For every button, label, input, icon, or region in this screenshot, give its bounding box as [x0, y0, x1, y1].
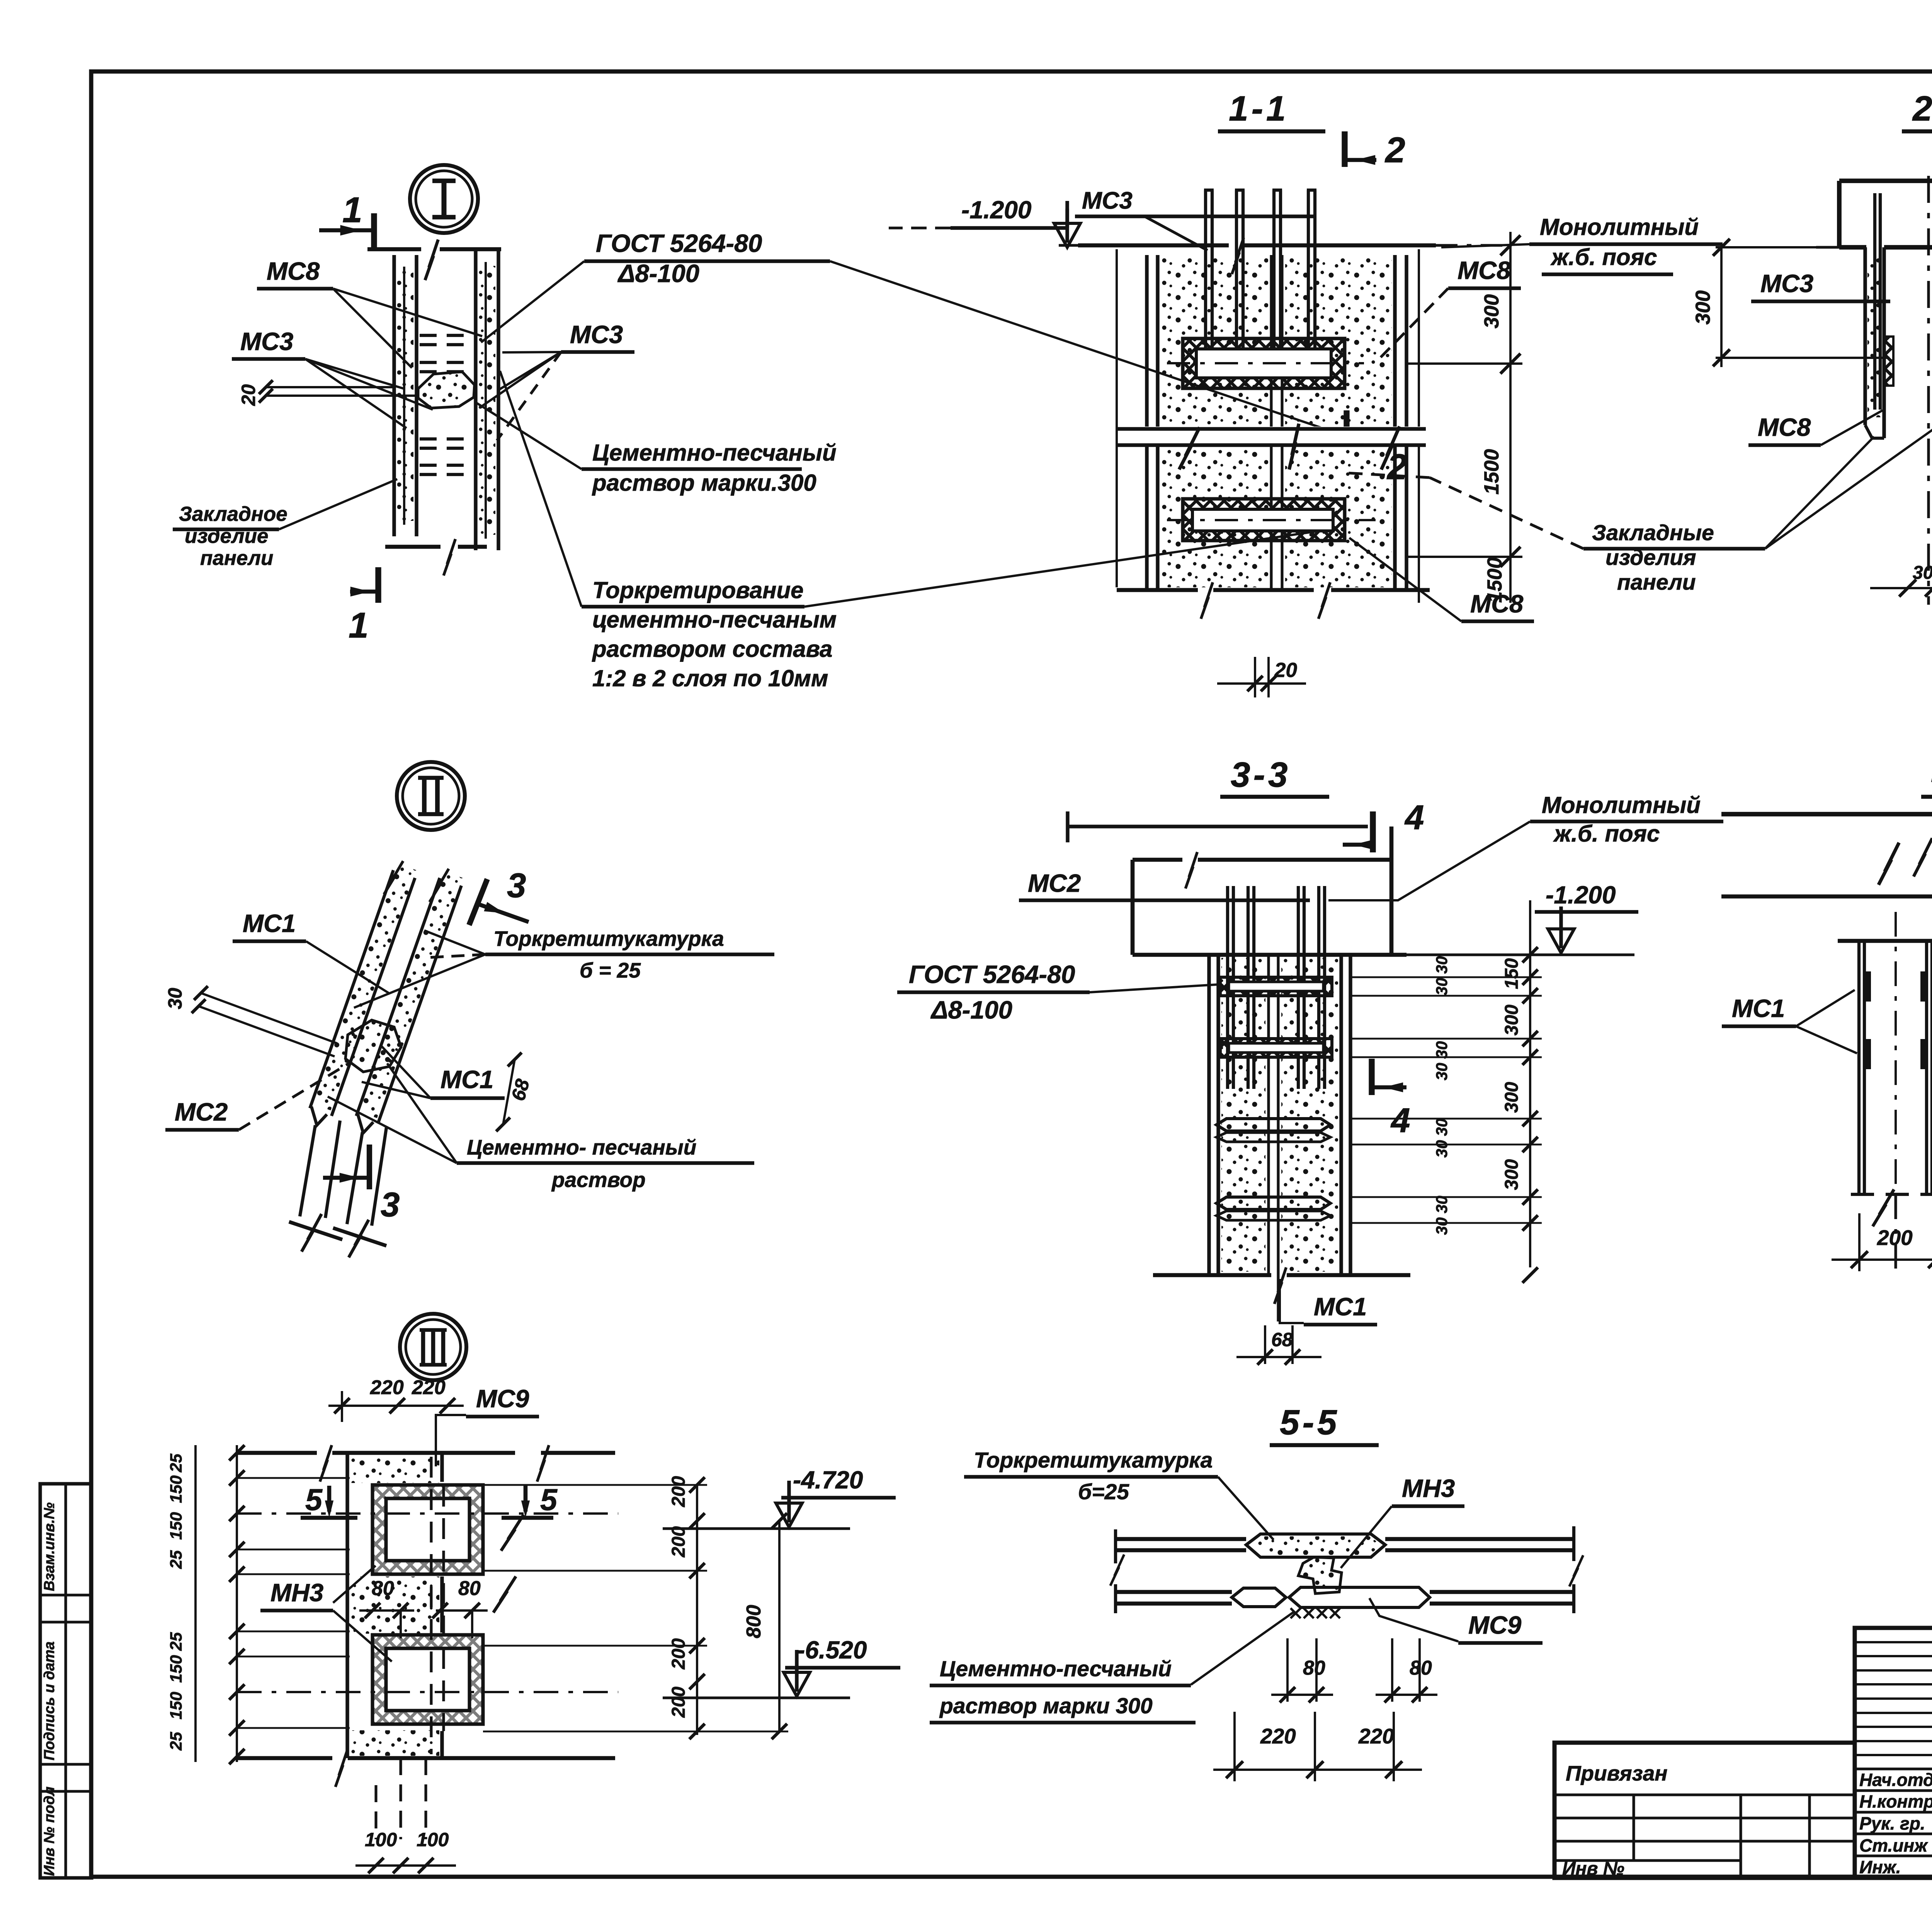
svg-text:МС2: МС2 [175, 1098, 228, 1126]
svg-text:Монолитный: Монолитный [1540, 214, 1699, 240]
svg-text:ж.б. пояс: ж.б. пояс [1550, 244, 1657, 270]
svg-text:раствор марки 300: раствор марки 300 [939, 1694, 1153, 1718]
svg-text:200: 200 [668, 1476, 689, 1507]
svg-text:МС2: МС2 [1028, 869, 1081, 897]
svg-text:МС8: МС8 [1458, 256, 1511, 284]
svg-text:150: 150 [1502, 958, 1522, 989]
svg-text:25: 25 [167, 1453, 185, 1473]
svg-text:3: 3 [507, 866, 526, 905]
svg-text:25: 25 [167, 1550, 185, 1569]
svg-text:30: 30 [1433, 1217, 1451, 1235]
svg-text:Подпись и дата: Подпись и дата [41, 1641, 58, 1760]
svg-text:150: 150 [167, 1655, 185, 1683]
svg-text:-1.200: -1.200 [1546, 881, 1616, 909]
svg-text:раствор: раствор [551, 1168, 646, 1192]
svg-text:МС1: МС1 [1732, 994, 1785, 1022]
svg-text:цементно-песчаным: цементно-песчаным [592, 607, 837, 633]
svg-text:300: 300 [1502, 1159, 1522, 1190]
svg-text:МС3: МС3 [240, 327, 293, 355]
svg-text:30: 30 [1433, 956, 1451, 974]
svg-text:2-2: 2-2 [1912, 89, 1932, 128]
svg-text:3: 3 [381, 1185, 400, 1224]
svg-text:200: 200 [668, 1687, 689, 1718]
svg-text:Инв № подл: Инв № подл [41, 1787, 58, 1876]
svg-text:68: 68 [1271, 1329, 1293, 1350]
svg-text:300: 300 [1692, 291, 1714, 325]
svg-text:ГОСТ 5264-80: ГОСТ 5264-80 [909, 960, 1075, 988]
svg-text:МС8: МС8 [1758, 413, 1811, 441]
svg-text:Ст.инж: Ст.инж [1859, 1835, 1928, 1855]
svg-text:МС9: МС9 [476, 1384, 529, 1413]
svg-text:100: 100 [417, 1829, 449, 1850]
svg-text:МС1: МС1 [243, 909, 296, 937]
svg-text:220: 220 [1260, 1724, 1296, 1748]
svg-text:20: 20 [1274, 659, 1297, 682]
svg-text:4: 4 [1390, 1101, 1410, 1139]
svg-text:200: 200 [668, 1638, 689, 1670]
svg-text:МС1: МС1 [440, 1065, 493, 1094]
svg-text:25: 25 [167, 1731, 185, 1751]
svg-text:220: 220 [1358, 1724, 1394, 1748]
svg-text:раствором состава: раствором состава [592, 636, 832, 662]
svg-text:30: 30 [1433, 1041, 1451, 1059]
svg-text:300: 300 [1502, 1005, 1522, 1036]
svg-text:5: 5 [540, 1482, 558, 1517]
svg-text:Взам.инв.№: Взам.инв.№ [41, 1502, 58, 1591]
svg-text:30: 30 [1913, 563, 1932, 583]
svg-text:220: 220 [370, 1376, 404, 1399]
svg-text:220: 220 [412, 1376, 446, 1399]
svg-text:80: 80 [1410, 1657, 1432, 1679]
svg-text:80: 80 [1303, 1657, 1325, 1679]
svg-text:б = 25: б = 25 [580, 958, 641, 982]
svg-text:Привязан: Привязан [1566, 1761, 1668, 1785]
svg-text:1:2 в 2 слоя по 10мм: 1:2 в 2 слоя по 10мм [592, 665, 828, 691]
svg-text:3-3: 3-3 [1231, 755, 1291, 794]
svg-text:-6.520: -6.520 [797, 1636, 867, 1664]
svg-text:Инв №: Инв № [1562, 1859, 1624, 1879]
svg-text:МС3: МС3 [570, 320, 623, 349]
svg-text:Торкретштукатурка: Торкретштукатурка [974, 1448, 1213, 1473]
svg-text:ГОСТ 5264-80: ГОСТ 5264-80 [596, 229, 762, 257]
svg-text:1-1: 1-1 [1229, 89, 1289, 128]
svg-text:МС8: МС8 [1470, 590, 1524, 618]
svg-text:300: 300 [1480, 294, 1503, 328]
svg-text:150: 150 [167, 1512, 185, 1540]
svg-text:200: 200 [1877, 1226, 1913, 1250]
svg-text:Н.контр: Н.контр [1859, 1791, 1932, 1811]
svg-text:Цементно-песчаный: Цементно-песчаный [592, 440, 837, 466]
svg-text:МС3: МС3 [1082, 187, 1133, 214]
svg-text:5: 5 [305, 1482, 323, 1517]
svg-text:МС3: МС3 [1760, 269, 1813, 298]
svg-text:1: 1 [349, 605, 369, 645]
svg-text:80: 80 [458, 1577, 481, 1600]
svg-text:-4.720: -4.720 [793, 1466, 863, 1494]
svg-text:ж.б. пояс: ж.б. пояс [1553, 821, 1660, 847]
svg-text:30: 30 [1433, 1140, 1451, 1158]
svg-text:25: 25 [167, 1632, 185, 1651]
svg-text:МС1: МС1 [1314, 1293, 1367, 1321]
svg-text:Δ8-100: Δ8-100 [617, 259, 699, 287]
svg-text:30: 30 [1433, 978, 1451, 995]
svg-text:Нач.отд: Нач.отд [1859, 1770, 1932, 1790]
svg-text:4: 4 [1404, 798, 1424, 837]
svg-text:Инж.: Инж. [1859, 1857, 1901, 1877]
svg-text:Рук. гр.: Рук. гр. [1859, 1813, 1925, 1833]
svg-text:Торкретирование: Торкретирование [592, 577, 803, 603]
svg-text:-1.200: -1.200 [961, 196, 1031, 224]
svg-text:МС8: МС8 [267, 257, 320, 285]
svg-text:б=25: б=25 [1078, 1480, 1129, 1504]
svg-text:100: 100 [365, 1829, 397, 1850]
svg-text:Закладное: Закладное [179, 503, 287, 526]
svg-text:Цементно- песчаный: Цементно- песчаный [467, 1135, 696, 1159]
svg-text:панели: панели [200, 547, 273, 570]
svg-text:Цементно-песчаный: Цементно-песчаный [940, 1656, 1172, 1681]
svg-text:Монолитный: Монолитный [1542, 792, 1701, 818]
svg-text:5-5: 5-5 [1280, 1403, 1340, 1442]
svg-text:Торкретштукатурка: Торкретштукатурка [493, 927, 724, 951]
svg-text:раствор марки.300: раствор марки.300 [592, 470, 816, 496]
svg-text:20: 20 [238, 384, 259, 406]
svg-text:30: 30 [1433, 1196, 1451, 1213]
svg-text:150: 150 [167, 1692, 185, 1719]
svg-text:80: 80 [372, 1577, 394, 1600]
svg-text:1500: 1500 [1480, 449, 1503, 495]
svg-text:300: 300 [1502, 1082, 1522, 1113]
svg-text:МН3: МН3 [1402, 1474, 1455, 1502]
svg-text:Закладные: Закладные [1592, 520, 1714, 545]
svg-text:30: 30 [164, 988, 186, 1009]
svg-text:30: 30 [1433, 1063, 1451, 1080]
svg-text:1: 1 [342, 190, 362, 230]
svg-text:200: 200 [668, 1526, 689, 1558]
svg-text:Δ8-100: Δ8-100 [930, 996, 1012, 1024]
svg-text:панели: панели [1617, 570, 1696, 595]
svg-text:2: 2 [1384, 130, 1405, 170]
svg-text:МС9: МС9 [1468, 1611, 1521, 1639]
svg-text:150: 150 [167, 1475, 185, 1503]
svg-text:800: 800 [743, 1605, 765, 1638]
svg-text:30: 30 [1433, 1118, 1451, 1136]
svg-text:МН3: МН3 [270, 1578, 323, 1607]
